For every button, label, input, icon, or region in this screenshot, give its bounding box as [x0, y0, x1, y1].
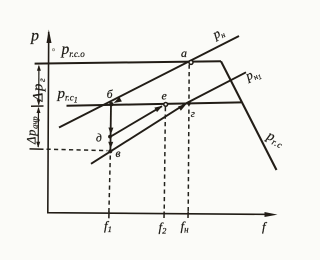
- svg-text:pr.c1: pr.c1: [57, 86, 78, 104]
- svg-text:д: д: [96, 133, 102, 145]
- svg-text:pr.c: pr.c: [263, 128, 287, 150]
- svg-text:Δpг: Δpг: [31, 78, 48, 103]
- svg-text:pн1: pн1: [242, 64, 263, 87]
- svg-text:pr.c.o: pr.c.o: [61, 41, 86, 59]
- svg-text:г: г: [191, 109, 195, 120]
- svg-text:е: е: [162, 89, 168, 103]
- svg-text:fн: fн: [181, 219, 190, 235]
- svg-text:f: f: [262, 219, 268, 234]
- svg-text:Δpачр: Δpачр: [25, 116, 40, 145]
- svg-text:в: в: [116, 148, 121, 160]
- svg-text:f2: f2: [159, 220, 168, 236]
- svg-text:а: а: [181, 46, 187, 60]
- svg-text:f1: f1: [104, 218, 112, 234]
- svg-text:p: p: [30, 28, 39, 45]
- svg-text:pн: pн: [209, 24, 227, 44]
